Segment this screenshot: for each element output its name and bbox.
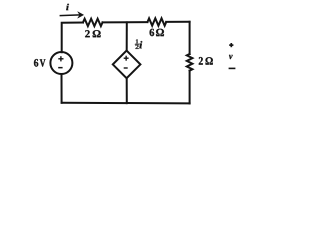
voltage source V1 circle — [50, 52, 72, 74]
wire right branch lower — [189, 71, 191, 104]
current arrow i — [60, 12, 84, 19]
output voltage minus sign — [229, 68, 236, 70]
resistor 2ohm top — [83, 19, 103, 26]
output voltage label v — [229, 55, 233, 59]
wire top-right segment — [166, 21, 189, 23]
resistor 2ohm right — [187, 54, 193, 71]
label 6 V — [34, 59, 38, 67]
voltage source V1 minus sign — [58, 67, 62, 69]
label 2 ohm top — [85, 30, 90, 37]
label 2 ohm right — [199, 57, 203, 65]
wire right branch upper — [189, 22, 191, 54]
wire middle branch lower — [126, 78, 128, 103]
dependent source minus sign — [124, 67, 128, 68]
dependent source plus sign — [124, 56, 129, 61]
label i — [66, 4, 69, 10]
wire bottom — [62, 102, 190, 105]
wire middle branch upper — [126, 22, 128, 50]
dependent source diamond — [113, 51, 141, 79]
wire left branch lower — [61, 74, 63, 103]
wire top-middle segment — [103, 21, 148, 23]
resistor 6ohm top — [148, 18, 167, 25]
dependent source gain label 1/2 i — [135, 39, 143, 49]
wire top-left segment — [62, 23, 83, 53]
voltage source V1 plus sign — [58, 56, 63, 61]
label 6 ohm top — [150, 29, 155, 36]
output voltage plus sign — [229, 43, 233, 47]
